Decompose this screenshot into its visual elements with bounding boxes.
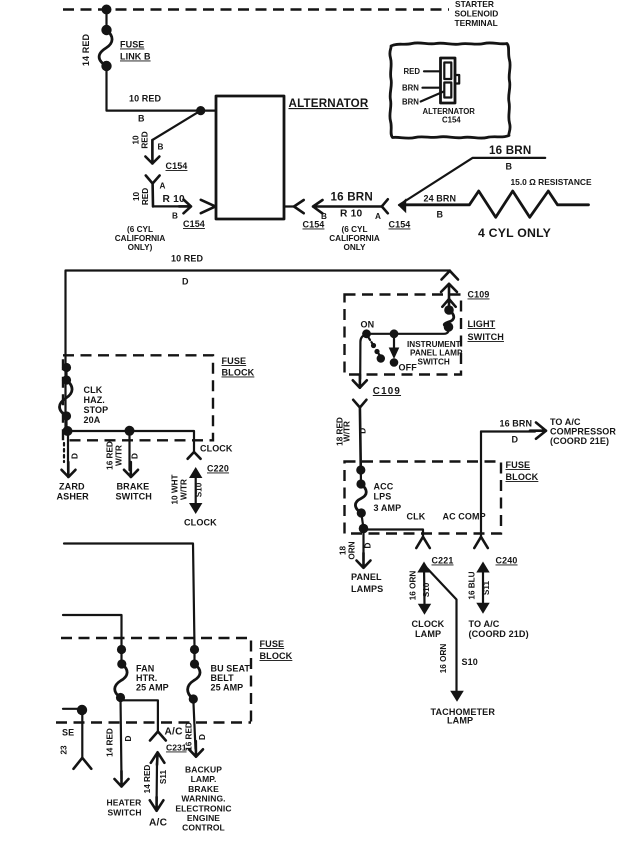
wire: feed to fan htr fuse [63,615,122,650]
svg-text:FUSE: FUSE [222,356,247,366]
svg-text:16 BRN: 16 BRN [500,419,533,429]
svg-text:RED: RED [141,188,150,205]
wire: 16 BRN to A/C compressor [481,430,535,432]
svg-text:FAN: FAN [136,664,154,674]
node junction brake [125,426,135,436]
arrow down clock lamp [418,604,431,615]
svg-text:LAMPS: LAMPS [351,584,383,594]
svg-text:BRAKE: BRAKE [117,482,150,492]
svg-text:SWITCH: SWITCH [116,492,152,502]
connector fork CLK opening down [416,537,430,548]
node: junction on 10 RED wire [196,106,205,115]
svg-text:HTR.: HTR. [136,673,157,683]
arrow down (C109 lower, male) [353,375,367,388]
wire: light switch output down [360,334,366,379]
svg-text:FUSE: FUSE [506,460,531,470]
svg-text:B: B [437,210,444,220]
svg-text:BU SEAT: BU SEAT [211,664,251,674]
svg-text:14 RED: 14 RED [143,765,152,794]
svg-text:D: D [124,735,133,741]
svg-text:AC COMP: AC COMP [443,512,486,522]
svg-text:ALTERNATOR: ALTERNATOR [289,97,369,110]
svg-text:ACC: ACC [374,482,394,492]
arrow down into C154 (B) [145,140,159,164]
svg-text:25 AMP: 25 AMP [211,683,244,693]
svg-text:ENGINE: ENGINE [187,813,220,823]
svg-text:ZARD: ZARD [59,482,85,492]
node junction hazard [63,426,73,436]
svg-text:16 BRN: 16 BRN [489,144,531,157]
svg-text:23: 23 [60,745,69,755]
svg-text:B: B [172,212,178,221]
arrow up (C109 male) [441,284,457,299]
wire: stub with junction at bottom left [63,708,82,710]
svg-text:S10: S10 [195,482,204,497]
svg-text:BRN: BRN [402,98,419,107]
svg-text:C240: C240 [496,556,518,566]
svg-text:CONTROL: CONTROL [182,823,225,833]
node junction at fuse block entry [356,465,365,474]
svg-text:D: D [198,734,207,740]
svg-text:CLOCK: CLOCK [200,444,233,454]
svg-text:HAZ.: HAZ. [84,395,105,405]
svg-text:ELECTRONIC: ELECTRONIC [175,803,231,813]
svg-text:A/C: A/C [149,818,168,829]
svg-text:RED: RED [141,131,150,148]
svg-text:(6 CYL: (6 CYL [342,225,368,234]
svg-text:COMPRESSOR: COMPRESSOR [550,427,616,437]
svg-text:BRAKE: BRAKE [188,784,219,794]
switch wiper arrow pointing down [393,334,395,348]
arrow right to A/C compressor [530,423,546,439]
wire: branch to A/C fork [121,700,158,731]
svg-text:10 RED: 10 RED [129,94,162,104]
connector fork at alternator right pin [284,205,294,207]
svg-text:25 AMP: 25 AMP [136,683,169,693]
svg-text:C221: C221 [432,556,454,566]
alternator C154 connector inset box (wavy border) [390,43,510,138]
arrow down tachometer [450,691,464,702]
wire + resistor 15 ohm zigzag (4 cyl) [402,191,589,217]
connector arrows C231 (up/down) [151,752,165,765]
svg-text:WARNING.: WARNING. [181,794,225,804]
fuse ACC LPS 3 AMP [360,470,362,484]
rheostat dashed diagonal [369,338,373,344]
svg-text:CLK: CLK [407,512,426,522]
svg-text:B: B [138,114,145,124]
wire from breaker to switch contacts [367,327,449,334]
svg-text:W/TR: W/TR [343,421,352,442]
svg-text:S10: S10 [422,582,431,597]
svg-text:BRN: BRN [402,84,419,93]
svg-text:14 RED: 14 RED [106,728,115,757]
svg-text:LAMP: LAMP [447,716,473,726]
svg-text:LINK B: LINK B [120,52,151,62]
svg-text:A/C: A/C [165,727,184,738]
svg-text:BLOCK: BLOCK [506,472,539,482]
svg-text:4 CYL ONLY: 4 CYL ONLY [478,226,551,240]
connector slot bottom [444,83,451,98]
svg-text:14 RED: 14 RED [81,34,91,67]
dotted left edge continuation [63,443,65,462]
svg-text:LPS: LPS [374,492,392,502]
wire clock lamp drop [423,565,426,605]
svg-text:10 RED: 10 RED [171,254,204,264]
svg-text:S11: S11 [482,581,491,596]
arrow (filled) pointing left into C154-A [399,198,407,213]
svg-text:16 RED: 16 RED [184,722,193,751]
connector fork opening right at jumper end [382,199,388,213]
svg-text:C154: C154 [183,219,205,229]
connector fork opening down at bus end (C109) [442,271,459,280]
connector fork A/C opening down [150,732,166,741]
svg-text:SWITCH: SWITCH [418,358,450,367]
svg-text:BLOCK: BLOCK [260,651,293,661]
circuit breaker CLK HAZ STOP 20A [62,363,71,372]
svg-text:D: D [512,435,519,445]
svg-text:LAMP.: LAMP. [191,774,217,784]
svg-text:(COORD 21E): (COORD 21E) [550,436,609,446]
wire: BU seat belt output [193,699,195,749]
arrow down heater switch [115,771,129,787]
svg-text:CALIFORNIA: CALIFORNIA [115,234,166,243]
wire across fuse block to CLK [364,530,424,537]
svg-text:10: 10 [132,135,141,145]
svg-text:SWITCH: SWITCH [468,332,504,342]
connector fork C154-A opening up [146,176,160,207]
svg-text:ONLY): ONLY) [128,243,153,252]
node ON contact [362,329,371,338]
circuit breaker FAN HTR 25 AMP [117,645,126,654]
svg-text:B: B [506,162,513,172]
svg-text:SOLENOID: SOLENOID [455,9,499,19]
node junction [77,705,87,715]
fuse link B [101,25,111,35]
svg-text:TO A/C: TO A/C [469,619,500,629]
svg-text:LAMP: LAMP [415,629,441,639]
wire AC COMP vertical [480,432,482,537]
svg-text:W/TR: W/TR [115,445,124,466]
connector fork AC COMP opening down [474,537,488,548]
svg-text:C109: C109 [373,386,401,397]
wire: starter solenoid terminal dashed feed [63,8,449,10]
node: junction on starter feed [102,5,112,15]
svg-text:BACKUP: BACKUP [185,765,222,775]
wire: S10 splice to tachometer [425,566,457,693]
svg-text:(6 CYL: (6 CYL [127,225,153,234]
arrow down panel lamps [357,553,371,568]
svg-text:B: B [158,143,164,152]
connector slot top [444,63,451,80]
svg-text:24 BRN: 24 BRN [424,194,457,204]
svg-text:S11: S11 [159,770,168,785]
arrow pointing left into alternator (16 BRN R10 jumper) [313,200,382,213]
svg-text:PANEL LAMP: PANEL LAMP [410,349,463,358]
svg-text:16 ORN: 16 ORN [409,571,418,601]
svg-text:D: D [359,428,368,434]
wire across fuse block bottom [67,431,195,452]
circuit breaker in light switch [444,305,454,315]
svg-text:C109: C109 [468,290,490,300]
connector arrow up C221 [417,562,430,573]
svg-text:OFF: OFF [399,363,418,373]
svg-text:(COORD 21D): (COORD 21D) [469,629,529,639]
svg-text:10: 10 [132,192,141,202]
svg-text:RED: RED [404,67,421,76]
svg-text:ASHER: ASHER [57,492,90,502]
svg-text:HEATER: HEATER [107,798,142,808]
svg-text:R 10: R 10 [340,209,362,220]
svg-text:C220: C220 [207,464,229,474]
svg-text:LIGHT: LIGHT [468,319,496,329]
svg-text:15.0 Ω RESISTANCE: 15.0 Ω RESISTANCE [511,177,592,187]
svg-text:D: D [131,453,140,459]
svg-text:16 BLU: 16 BLU [468,571,477,599]
svg-text:16 RED: 16 RED [106,441,115,470]
wire: 10 RED bus [66,271,451,432]
arrow down backup [189,741,203,757]
connector fork CLOCK opening down [188,452,201,459]
svg-text:10 WHT: 10 WHT [171,474,180,504]
circuit breaker BU SEAT BELT 25 AMP [190,645,199,654]
svg-text:CALIFORNIA: CALIFORNIA [329,234,380,243]
svg-text:20A: 20A [84,415,101,425]
svg-text:S10: S10 [462,657,478,667]
connector fork at alternator left pin [201,200,216,213]
svg-text:A: A [160,182,166,191]
svg-text:16 ORN: 16 ORN [439,644,448,674]
svg-text:ORN: ORN [348,541,357,559]
light switch dashed box [345,295,462,375]
connector tab right [455,75,459,84]
node junction to panel lamps [359,524,369,534]
node OFF contact [390,358,399,367]
svg-text:BELT: BELT [211,673,235,683]
wire: 14 RED down then 10 RED to alternator [107,66,217,111]
node rheostat end [377,354,385,362]
svg-text:D: D [364,542,373,548]
node wiper pivot [390,329,399,338]
svg-text:STOP: STOP [84,405,109,415]
alternator box [216,96,284,219]
wire brake switch drop [128,431,130,470]
svg-text:CLOCK: CLOCK [184,518,217,528]
connector arrows C220 (up/down) [189,467,202,478]
svg-text:FUSE: FUSE [260,639,285,649]
svg-text:FUSE: FUSE [120,40,144,50]
connector arrow up C240 + wire + arrow down to A/C [476,562,489,573]
wire hazard flasher drop [67,431,69,470]
wire down through fuse block edge [81,710,83,758]
svg-text:A: A [375,212,381,221]
svg-text:ON: ON [361,320,375,330]
fuse block (bottom) dashed box [61,638,251,723]
wire: panel lamps drop [362,529,364,561]
wire from starter feed to fuse link [105,10,107,31]
wire R10 to alternator with arrow [153,205,188,207]
svg-text:SWITCH: SWITCH [108,808,142,818]
connector fork opening up (C109 lower) [353,400,366,470]
svg-text:CLK: CLK [84,385,103,395]
svg-text:C154: C154 [303,220,325,230]
svg-text:3 AMP: 3 AMP [374,503,402,513]
svg-text:C154: C154 [442,116,461,125]
wire: branch to C154-B [152,111,200,158]
svg-text:R 10: R 10 [163,194,185,205]
svg-text:CLOCK: CLOCK [412,619,445,629]
wire: 24 BRN diagonal up to 16 BRN line [399,158,545,205]
fuse block (right) dashed box [345,462,502,534]
wire: fan htr output to heater switch [121,698,122,780]
fuse block (left) dashed box [63,355,213,440]
svg-text:PANEL: PANEL [351,572,382,582]
arrow down brake [124,462,138,477]
svg-text:16 BRN: 16 BRN [331,191,373,204]
svg-text:BLOCK: BLOCK [222,368,255,378]
svg-text:SE: SE [62,728,74,738]
connector chevron inside light switch [442,299,455,310]
svg-text:C154: C154 [166,161,188,171]
wire: feed to BU seat belt fuse [64,544,195,648]
arrow down hazard [62,462,76,477]
svg-text:W/TR: W/TR [180,479,189,500]
svg-text:18: 18 [339,546,348,556]
connector fork opening down [74,758,92,769]
svg-text:D: D [71,453,80,459]
svg-text:ONLY: ONLY [344,243,367,252]
svg-text:D: D [182,277,189,287]
svg-text:TO A/C: TO A/C [550,417,581,427]
svg-text:TERMINAL: TERMINAL [455,18,498,28]
svg-text:C154: C154 [389,220,411,230]
connector body [441,58,456,103]
